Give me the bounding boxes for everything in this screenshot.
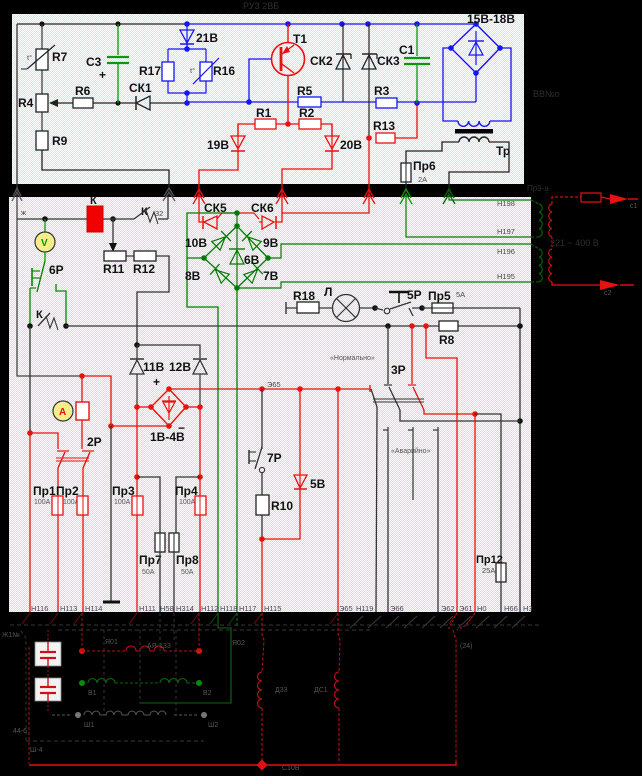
red dashed left riser — [28, 647, 30, 764]
green drops from H118 H117 — [140, 613, 231, 703]
wire to 2P pole1 — [30, 433, 58, 449]
bottom net labels — [31, 604, 533, 613]
wire bridge bottom to mid rail — [475, 73, 477, 102]
bridge rectifier 1B-4B — [148, 386, 189, 444]
svg-text:Н114: Н114 — [85, 604, 102, 613]
diode 11B — [130, 345, 165, 407]
svg-text:6Р: 6Р — [49, 263, 64, 277]
diode CK2 — [310, 24, 351, 102]
resistor R17 — [139, 62, 174, 81]
red diode CK6 — [251, 196, 282, 229]
svg-text:Н117: Н117 — [239, 604, 256, 613]
wire: left rail down through band — [16, 24, 18, 196]
node pole3 out — [472, 411, 478, 417]
wire: mid blue rail — [187, 101, 476, 103]
svg-text:Э66: Э66 — [390, 604, 404, 613]
svg-text:t°: t° — [27, 53, 32, 62]
svg-text:11В: 11В — [143, 360, 165, 374]
green wire continuation hatches — [210, 613, 237, 624]
svg-text:Я01: Я01 — [105, 639, 118, 646]
svg-text:R9: R9 — [52, 134, 68, 148]
svg-text:V: V — [41, 238, 48, 249]
thermistor R16 — [190, 58, 235, 84]
svg-text:В2: В2 — [203, 690, 212, 697]
rotor winding DS1 — [314, 613, 340, 763]
svg-text:Пр9-а: Пр9-а — [527, 184, 549, 193]
svg-text:с2: с2 — [604, 290, 612, 297]
3P pole1 — [370, 385, 377, 612]
svg-text:C3: C3 — [86, 55, 102, 69]
svg-text:25А: 25А — [482, 566, 495, 575]
bus junction diamond — [256, 759, 267, 770]
R17 R16 parallel frame — [168, 48, 206, 50]
svg-text:R1: R1 — [256, 106, 272, 120]
svg-text:7В: 7В — [263, 269, 279, 283]
contact K lower — [27, 309, 69, 330]
fuse Pr3 — [112, 484, 143, 612]
svg-text:R11: R11 — [103, 262, 125, 276]
svg-text:Н113: Н113 — [60, 604, 77, 613]
3P pole3 red — [408, 326, 475, 414]
stator winding green chain — [79, 679, 212, 697]
svg-text:15В-18В: 15В-18В — [467, 12, 515, 26]
svg-text:Э65: Э65 — [267, 380, 281, 389]
wire ground tap — [110, 426, 112, 601]
wire red top lead with fuse — [552, 193, 638, 210]
svg-text:СК3: СК3 — [377, 54, 400, 68]
wire coil to contact — [103, 218, 134, 220]
svg-text:7Р: 7Р — [267, 451, 282, 465]
resistor R11 — [103, 251, 126, 276]
svg-text:РУЗ 2ВБ: РУЗ 2ВБ — [243, 1, 279, 11]
node below R17R16 — [184, 90, 190, 96]
avarijno contact 2 — [408, 427, 413, 500]
capacitor box C upper — [35, 642, 61, 666]
relay contact 6P — [30, 261, 66, 326]
wire H198 — [449, 196, 531, 200]
svg-text:R12: R12 — [133, 262, 155, 276]
avarijno contact 1 — [383, 427, 388, 434]
wire R12 to diode pair — [137, 256, 169, 345]
svg-text:20В: 20В — [340, 138, 362, 152]
wire bridge left node — [137, 406, 151, 408]
wire 2P link feed from y326 down — [426, 326, 457, 612]
wire: top rail blue part — [187, 23, 476, 25]
svg-text:ДС1: ДС1 — [314, 687, 328, 694]
transformer Tp secondary winding — [459, 137, 489, 142]
contact 7P — [249, 389, 282, 473]
fuse Pr7 — [139, 533, 165, 612]
diode 7B lower-right arm — [243, 264, 263, 284]
wire V to 6P — [44, 252, 46, 261]
diode CK3 — [362, 24, 400, 138]
wire secondary left to fuse — [406, 142, 459, 163]
red dashed link between capacitor boxes — [47, 630, 49, 642]
bridge rectifier 15B-18B — [448, 12, 515, 76]
svg-text:R7: R7 — [52, 50, 68, 64]
wire H195 from bridge bottom — [237, 282, 531, 288]
wire E65 row from bridge top — [169, 388, 370, 390]
svg-text:R16: R16 — [213, 64, 235, 78]
svg-text:ВВ№о: ВВ№о — [533, 89, 560, 99]
right margin transformer: red primary winding lower — [549, 249, 552, 282]
svg-text:Н196: Н196 — [497, 247, 515, 256]
svg-text:R13: R13 — [373, 119, 395, 133]
svg-text:Пр2: Пр2 — [56, 484, 79, 498]
svg-text:С1: С1 — [399, 43, 415, 57]
resistor R3 — [374, 84, 397, 108]
svg-text:Э65: Э65 — [339, 604, 353, 613]
resistor R9 — [36, 131, 68, 150]
potentiometer R4 — [18, 94, 73, 112]
resistor R13 — [366, 103, 417, 143]
svg-text:t°: t° — [190, 66, 195, 75]
center diode 6B — [229, 213, 260, 288]
junction dots on y326 row — [385, 323, 391, 329]
right margin transformer: green secondary winding upper — [531, 200, 542, 237]
svg-text:12В: 12В — [169, 360, 191, 374]
resistor R18 — [293, 289, 332, 313]
diode 12B — [169, 359, 207, 407]
ground — [103, 601, 120, 604]
wire R1 left to 19B — [238, 124, 255, 136]
wire: base of T1 — [249, 59, 272, 102]
svg-text:К: К — [90, 195, 97, 207]
wire Pr4 branch — [199, 407, 201, 496]
svg-text:Пр5: Пр5 — [428, 289, 451, 303]
svg-text:Ш1: Ш1 — [84, 722, 94, 729]
zener 21B — [180, 24, 218, 49]
svg-text:С10В: С10В — [282, 765, 300, 772]
svg-text:Тр: Тр — [496, 144, 510, 158]
svg-text:21В: 21В — [196, 31, 218, 45]
transistor T1 — [272, 24, 308, 124]
svg-text:Я02: Я02 — [232, 640, 245, 647]
node R10-5B join — [259, 536, 265, 542]
svg-text:R5: R5 — [297, 84, 313, 98]
wire R11-R12 — [126, 255, 134, 257]
green bridge bottom drop H117 — [236, 288, 238, 612]
capacitor C1 — [399, 24, 430, 103]
band arrow red x369 — [363, 189, 375, 204]
wire: top rail black part — [17, 23, 187, 25]
fuse Pr5 — [422, 289, 520, 313]
svg-text:(24): (24) — [460, 643, 472, 650]
wire H115 drop — [261, 539, 263, 612]
svg-text:Пр8: Пр8 — [176, 553, 199, 567]
node below 21B — [184, 46, 190, 52]
wire E65 drop — [337, 389, 339, 612]
rotor winding D33 — [258, 613, 300, 772]
wire Pr3 branch — [136, 407, 138, 496]
wire left rail down and to shunt — [17, 219, 82, 376]
svg-text:R2: R2 — [299, 106, 315, 120]
wire 2P poles down — [57, 468, 59, 496]
3P mechanical link — [373, 398, 424, 400]
svg-text:+: + — [153, 375, 160, 389]
transformer Tp primary winding — [458, 121, 490, 126]
svg-text:100А: 100А — [114, 499, 131, 506]
svg-text:Н3: Н3 — [523, 604, 533, 613]
resistor R10 — [256, 473, 293, 539]
wire node to 12B — [137, 345, 200, 358]
diode 10B upper-left arm — [211, 231, 231, 251]
svg-text:221 ~ 400 В: 221 ~ 400 В — [550, 238, 599, 248]
right margin transformer: green secondary winding lower — [531, 244, 542, 282]
resistor R6 — [73, 84, 93, 108]
wire bridge right node — [186, 406, 200, 408]
svg-text:8В: 8В — [185, 269, 201, 283]
lamp L — [324, 285, 375, 322]
wire R9 bottom rail to band — [42, 150, 169, 196]
node C3/R6 — [115, 100, 120, 105]
diode 9B upper-right arm — [242, 231, 262, 251]
node R3 right — [414, 100, 420, 106]
wire bridge right to primary — [490, 48, 511, 121]
svg-text:«Аварийно»: «Аварийно» — [391, 447, 431, 455]
svg-text:А: А — [59, 407, 66, 418]
svg-text:АЯ-133: АЯ-133 — [147, 643, 171, 650]
wire to Pr12 — [475, 414, 501, 563]
ammeter A with shunt — [53, 376, 89, 449]
svg-text:10В: 10В — [185, 236, 207, 250]
node base drop — [246, 99, 252, 105]
svg-text:СК1: СК1 — [129, 81, 152, 95]
band arrow red x282 — [276, 189, 288, 204]
wire H116 drop — [29, 433, 31, 612]
band arrow black left — [12, 188, 22, 201]
wire R2 right to 20B — [276, 123, 299, 125]
svg-text:3Р: 3Р — [391, 363, 406, 377]
svg-text:Н119: Н119 — [356, 604, 373, 613]
svg-text:6В: 6В — [244, 253, 260, 267]
svg-text:100А: 100А — [34, 499, 51, 506]
node mid rail — [184, 100, 190, 106]
contact K 32 — [134, 206, 168, 224]
svg-text:Т1: Т1 — [293, 32, 307, 46]
green bridge frame left — [187, 213, 237, 612]
wire secondary right down through band — [449, 142, 509, 196]
svg-text:ж: ж — [21, 208, 26, 217]
zener 5B — [262, 389, 326, 539]
pushbutton 5P — [375, 288, 422, 316]
resistor R5 — [297, 84, 321, 107]
fuse Pr2 — [56, 484, 88, 612]
red diode CK5 — [199, 196, 259, 229]
band arrow red x199 — [193, 189, 205, 204]
svg-text:R10: R10 — [271, 499, 293, 513]
svg-text:«Нормально»: «Нормально» — [330, 355, 375, 362]
red link between windings — [551, 237, 553, 249]
wire: long row y326 to right rail — [66, 325, 520, 327]
resistor R2 — [299, 106, 321, 129]
svg-text:Л: Л — [324, 285, 332, 299]
svg-text:Э61: Э61 — [459, 604, 473, 613]
svg-text:Ш2: Ш2 — [208, 722, 218, 729]
3P pole2 — [384, 326, 520, 421]
wire CK3 node down through band — [368, 138, 370, 196]
svg-text:СК2: СК2 — [310, 54, 333, 68]
thermistor R7 — [21, 45, 68, 70]
resistor R1 — [255, 106, 276, 129]
wire: left rail pink — [16, 196, 18, 219]
green bridge diamond — [201, 210, 271, 291]
capacitor box C lower — [35, 678, 61, 701]
svg-text:9В: 9В — [263, 236, 279, 250]
wire R6 to node — [93, 102, 136, 104]
svg-text:Н118: Н118 — [220, 604, 237, 613]
svg-text:R17: R17 — [139, 64, 161, 78]
svg-text:Н115: Н115 — [264, 604, 281, 613]
wire up to band x168 — [167, 196, 169, 219]
svg-text:Пр7: Пр7 — [139, 553, 162, 567]
svg-text:Н0: Н0 — [477, 604, 487, 613]
fuse Pr8 — [169, 533, 199, 612]
svg-text:R3: R3 — [374, 84, 390, 98]
avarijno contact 3 — [433, 427, 438, 612]
node R1-R2 emitter — [285, 121, 291, 127]
svg-text:Н58: Н58 — [160, 604, 174, 613]
svg-text:Н116: Н116 — [31, 604, 48, 613]
wire R4 to R9 — [41, 112, 43, 131]
right margin transformer: red primary winding upper — [549, 204, 552, 237]
arrow to R11 — [112, 219, 114, 246]
svg-text:Н197: Н197 — [497, 227, 515, 236]
wire E66 drop — [387, 434, 389, 612]
stator winding red chain — [79, 613, 245, 654]
svg-text:100А: 100А — [179, 499, 196, 506]
wire down from K row to 2P — [29, 326, 31, 433]
svg-text:5Р: 5Р — [407, 288, 422, 302]
wire CK6 tee to x369 — [282, 196, 369, 213]
wire R7 to R4 — [41, 70, 43, 94]
svg-text:50А: 50А — [181, 569, 194, 576]
wire bridge left to primary — [443, 48, 458, 121]
svg-text:Н66: Н66 — [504, 604, 518, 613]
svg-text:R18: R18 — [293, 289, 315, 303]
svg-text:с1: с1 — [630, 203, 638, 210]
diagonal continuation hatches top-right — [350, 616, 525, 628]
svg-text:−: − — [178, 421, 185, 435]
wire H197 — [406, 196, 531, 237]
diode CK1 — [129, 81, 187, 110]
svg-text:Ж1№: Ж1№ — [2, 632, 20, 639]
gray dashed verticals crossing chains — [104, 613, 176, 715]
svg-text:2Р: 2Р — [87, 435, 102, 449]
svg-text:Н314: Н314 — [176, 604, 194, 613]
svg-text:R4: R4 — [18, 96, 34, 110]
wire red bottom lead to arrow — [552, 280, 634, 297]
band arrow dark green x449 — [443, 189, 455, 204]
svg-text:Д33: Д33 — [275, 687, 288, 694]
wire fuse Pr6 down through band — [405, 182, 407, 196]
wire: top row — [17, 218, 87, 220]
bottom section: dashed gray bus lines — [10, 625, 540, 630]
pink relay panel background — [9, 197, 531, 612]
fuse Pr12 — [476, 554, 506, 612]
red drops E61 H0 converge — [448, 613, 475, 762]
node junction dots top rail — [39, 21, 44, 26]
svg-text:К: К — [36, 309, 43, 321]
svg-text:Н112: Н112 — [201, 604, 218, 613]
svg-text:50А: 50А — [142, 569, 155, 576]
svg-text:Н195: Н195 — [497, 272, 515, 281]
zener 19B — [199, 124, 245, 196]
zener 20B — [282, 124, 362, 196]
svg-text:32: 32 — [155, 209, 163, 218]
svg-text:Э62: Э62 — [441, 604, 455, 613]
svg-text:СК6: СК6 — [251, 201, 274, 215]
fuse Pr6 — [401, 159, 436, 184]
svg-text:R8: R8 — [439, 333, 455, 347]
diode 8B lower-left arm — [210, 264, 230, 284]
svg-text:R6: R6 — [75, 84, 91, 98]
resistor R8 — [439, 321, 458, 347]
fuse Pr4 — [175, 484, 206, 612]
gray dashed bottom frame — [26, 740, 204, 742]
wire minus feed to bridge bottom — [82, 376, 169, 426]
wire H0 drop — [474, 414, 476, 612]
svg-text:44-6: 44-6 — [13, 728, 27, 735]
svg-text:5В: 5В — [310, 477, 326, 491]
band arrow green x406 — [400, 189, 412, 204]
blue control panel background — [12, 14, 524, 184]
svg-text:Пр6: Пр6 — [413, 159, 436, 173]
svg-text:Н198: Н198 — [497, 199, 515, 208]
gray dashed left frame — [21, 631, 26, 741]
wire: R7 branch top — [41, 24, 43, 49]
lamp circuit row: terminal tick — [285, 302, 287, 314]
svg-text:+: + — [99, 68, 106, 82]
capacitor C3 electrolytic — [86, 24, 129, 103]
green bridge left node stub — [187, 257, 204, 259]
resistor R12 — [133, 251, 156, 276]
red wire continuation hatches — [22, 613, 475, 624]
svg-text:2А: 2А — [418, 175, 427, 184]
svg-text:Ш-4: Ш-4 — [30, 747, 43, 754]
voltmeter V — [35, 232, 55, 252]
wire right rail — [519, 308, 521, 612]
red bottom bus — [29, 762, 456, 765]
transformer Tp core — [455, 129, 493, 134]
wire green to voltmeter — [44, 219, 46, 232]
contactor coil K — [87, 195, 103, 232]
fuse Pr1 — [33, 484, 63, 612]
contactor 2P — [56, 435, 102, 468]
wire H196 from bridge right — [268, 244, 531, 258]
svg-text:19В: 19В — [207, 138, 229, 152]
svg-text:В1: В1 — [88, 690, 97, 697]
band arrow black x168 — [163, 188, 175, 201]
gray winding chain — [52, 711, 218, 729]
svg-text:Н111: Н111 — [139, 604, 156, 613]
svg-text:5А: 5А — [456, 290, 465, 299]
